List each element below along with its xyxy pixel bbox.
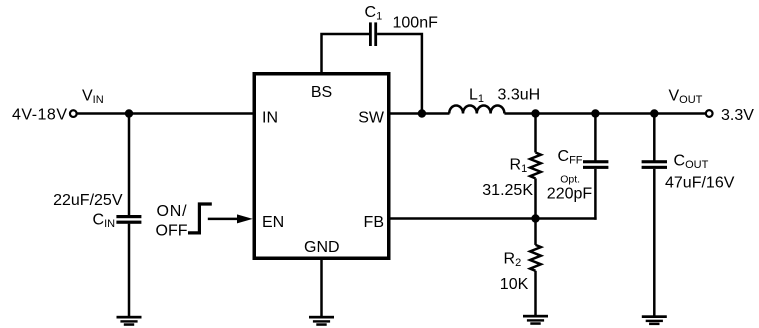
junction CFF top node [591, 109, 599, 117]
wire CIN to ground [128, 224, 131, 317]
svg-text:EN: EN [262, 214, 284, 231]
junction R1 top node [531, 109, 539, 117]
wire input rail to IN pin [77, 112, 254, 115]
wire R2 to ground [534, 271, 537, 316]
wire CIN top [128, 114, 131, 216]
node VIN input terminal [70, 110, 77, 117]
ground COUT [642, 315, 667, 325]
step waveform symbol [188, 204, 212, 233]
svg-text:31.25K: 31.25K [482, 182, 533, 199]
wire CFF bottom to FB rail [594, 169, 597, 220]
resistor R1 [530, 153, 541, 179]
junction SW node [418, 109, 426, 117]
wire R1 top [534, 114, 537, 153]
op-amp U1 regulator box [254, 74, 389, 259]
svg-text:4V-18V: 4V-18V [12, 106, 67, 123]
wire SW pin to L1 [389, 112, 450, 115]
capacitor C1 [369, 22, 377, 46]
svg-text:100nF: 100nF [393, 15, 439, 32]
wire C1 to SW node [377, 34, 422, 114]
capacitor CFF [583, 160, 608, 169]
svg-text:10K: 10K [500, 276, 529, 293]
svg-text:OFF: OFF [156, 223, 188, 240]
junction input node [125, 109, 133, 117]
junction FB node [531, 214, 539, 222]
wire output rail [504, 112, 705, 115]
svg-text:BS: BS [311, 84, 332, 101]
wire R1 bottom [534, 178, 537, 218]
svg-text:47uF/16V: 47uF/16V [665, 175, 735, 192]
svg-text:3.3V: 3.3V [721, 107, 754, 124]
wire BS riser [322, 34, 370, 73]
wire CFF top [594, 114, 597, 161]
capacitor COUT [642, 160, 667, 169]
ground R2 [523, 315, 548, 325]
svg-text:SW: SW [358, 109, 385, 126]
arrowhead into EN pin [237, 214, 253, 223]
inductor L1 [449, 106, 504, 114]
wire COUT top [653, 114, 656, 161]
wire R2 top [534, 219, 537, 245]
svg-text:3.3uH: 3.3uH [498, 87, 541, 104]
svg-text:GND: GND [304, 239, 340, 256]
wire EN arrow shaft [208, 218, 240, 221]
svg-text:ON/: ON/ [157, 203, 188, 220]
wire GND pin to ground [320, 259, 323, 318]
wire COUT to ground [653, 169, 656, 317]
svg-text:IN: IN [262, 109, 278, 126]
ground CIN [117, 316, 142, 326]
wire FB rail [389, 217, 597, 220]
svg-text:Opt.: Opt. [560, 174, 580, 186]
svg-text:FB: FB [364, 214, 384, 231]
junction COUT top node [650, 109, 658, 117]
svg-text:22uF/25V: 22uF/25V [53, 192, 123, 209]
resistor R2 [530, 245, 541, 271]
capacitor CIN [116, 215, 141, 224]
node VOUT output terminal [706, 110, 713, 117]
svg-text:220pF: 220pF [547, 186, 593, 203]
ground GND pin [309, 316, 334, 326]
